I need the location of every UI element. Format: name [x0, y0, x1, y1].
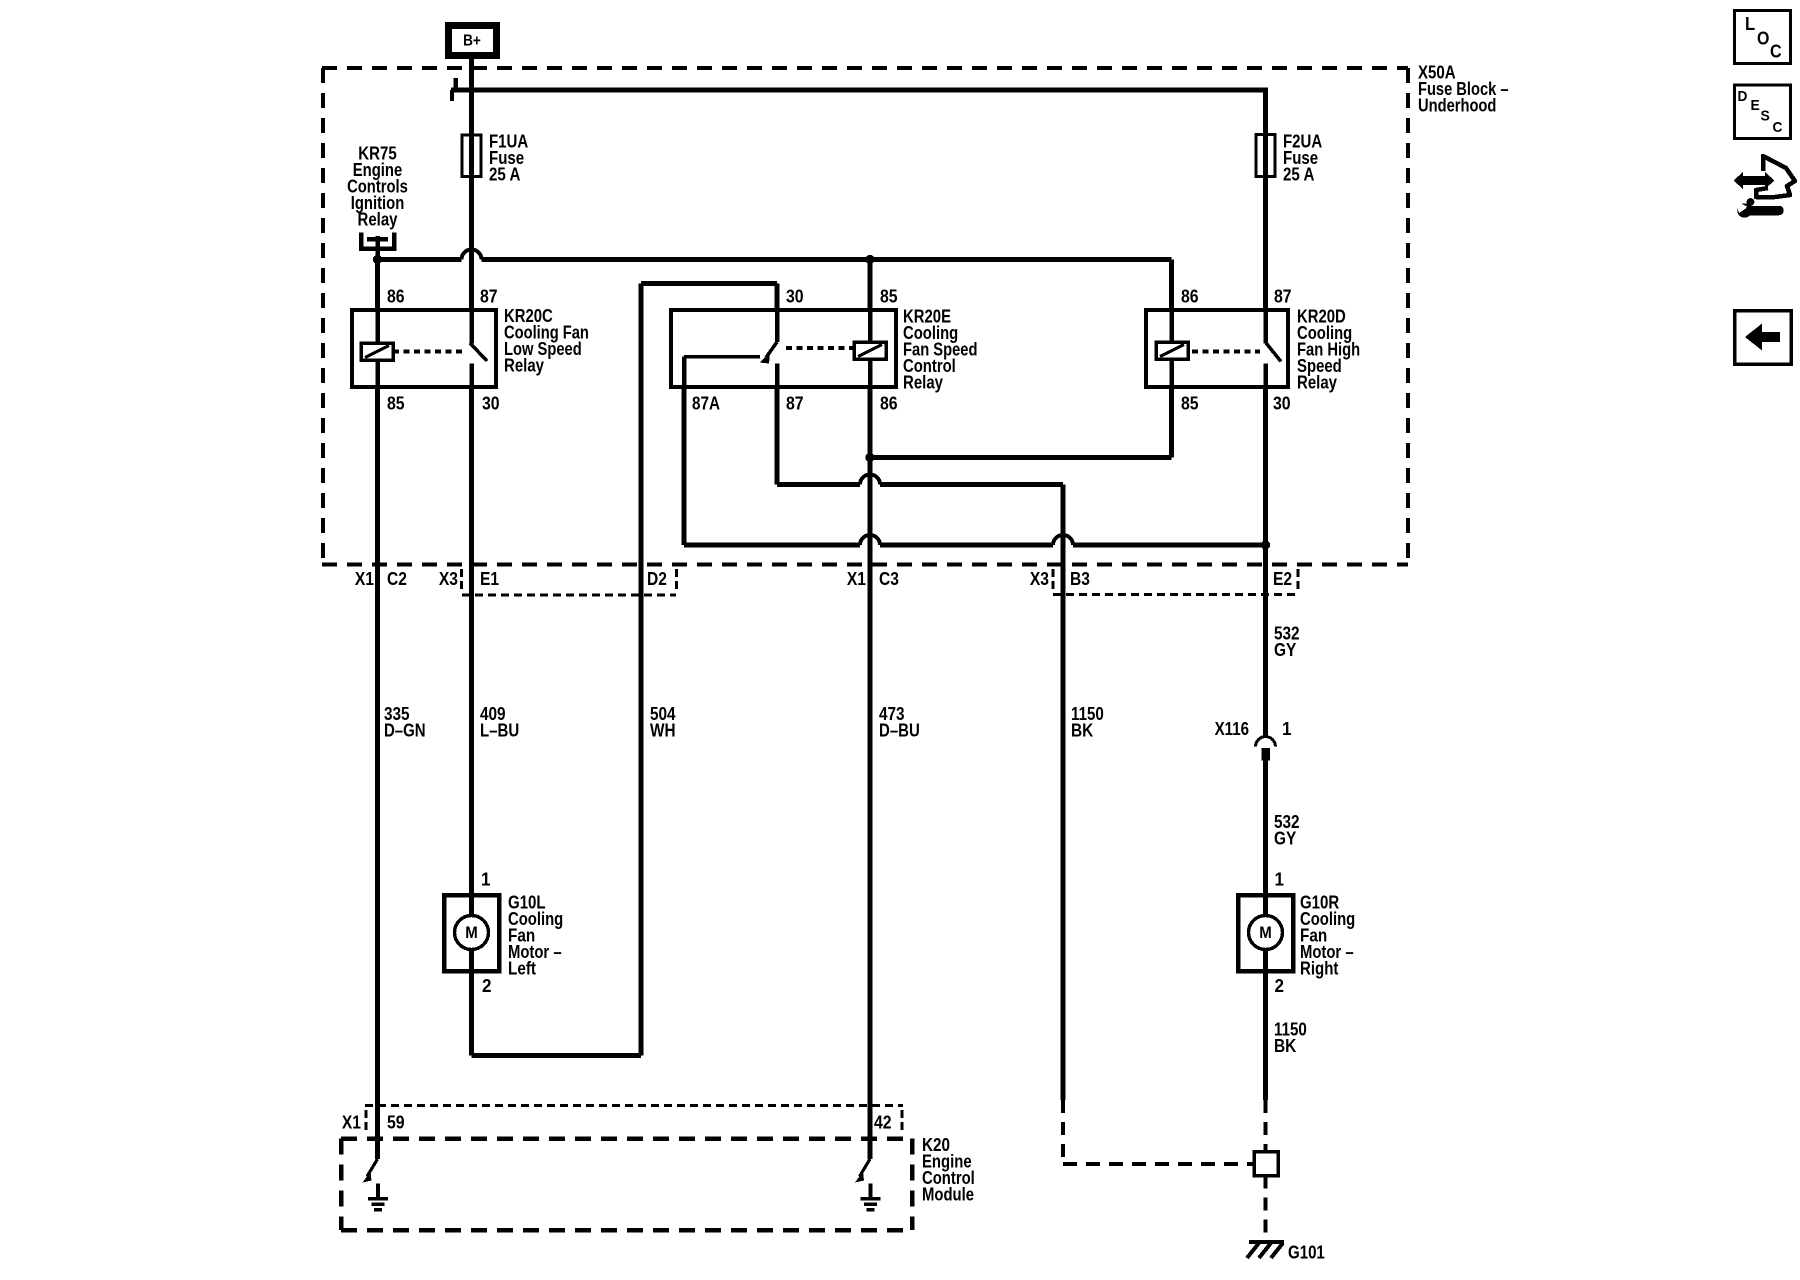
ECM pin 42 switch blade	[860, 1159, 871, 1177]
KR20D pin 87 stub	[1263, 310, 1268, 344]
svg-text:25 A: 25 A	[489, 164, 520, 185]
ECM pin 59 ground	[376, 1184, 380, 1199]
svg-text:C: C	[1770, 42, 1782, 62]
svg-text:D2: D2	[647, 568, 667, 589]
KR20E pin 30 stub	[775, 310, 780, 342]
svg-text:X1: X1	[847, 568, 866, 589]
KR20D pin 86 wire	[1169, 310, 1174, 342]
KR20C coil	[361, 343, 393, 360]
junction dot bus to KR20E pin 85	[865, 255, 874, 264]
G10L pin1 wire	[469, 895, 474, 916]
svg-text:C: C	[1773, 119, 1783, 136]
wire 532 GY X116 to G10R pin 1	[1263, 760, 1268, 916]
wire 409 L-BU KR20C 30 to G10L pin 1	[469, 387, 474, 916]
ECM pin 42 ground	[869, 1184, 873, 1199]
connector D2 tick	[675, 569, 678, 590]
svg-text:Relay: Relay	[358, 209, 399, 230]
KR20C pin 86 wire	[375, 310, 380, 343]
hook symbol at B+ feed junction	[453, 78, 458, 89]
G10L pin2 wire	[469, 949, 474, 971]
svg-text:GY: GY	[1274, 828, 1297, 849]
wire 1150 BK dashed to splice	[1061, 1100, 1065, 1164]
wire dashed splice to G101	[1264, 1176, 1268, 1242]
connector B3 tick	[1052, 569, 1055, 590]
svg-text:X1: X1	[342, 1112, 361, 1133]
motor G10L box	[444, 895, 499, 971]
svg-text:C3: C3	[879, 568, 899, 589]
wire 87A horizontal to E2 column	[684, 543, 860, 548]
KR20E pin 86 wire	[868, 359, 873, 387]
svg-text:30: 30	[1273, 393, 1291, 414]
wire 504 WH bottom run to G10L pin 2	[472, 1053, 642, 1058]
relay KR20E box	[671, 310, 896, 387]
svg-text:30: 30	[786, 286, 804, 307]
wire F2UA drop	[1263, 90, 1268, 310]
motor G10R symbol	[1249, 916, 1283, 950]
connector X116	[1256, 737, 1276, 747]
svg-text:59: 59	[387, 1112, 405, 1133]
svg-text:30: 30	[482, 393, 500, 414]
KR20C pin 30 stub	[469, 364, 474, 388]
DESC icon box	[1735, 85, 1791, 139]
motor G10L symbol	[455, 916, 489, 950]
svg-text:GY: GY	[1274, 639, 1297, 660]
KR20E switch blade	[766, 342, 777, 358]
svg-text:85: 85	[387, 393, 405, 414]
svg-text:86: 86	[1181, 286, 1199, 307]
svg-text:Left: Left	[508, 958, 536, 979]
connector E1 tick	[460, 569, 463, 590]
svg-text:D: D	[1738, 88, 1748, 105]
wire KR20D pin 30 down to X116	[1263, 387, 1268, 737]
svg-text:BK: BK	[1071, 720, 1094, 741]
B+ power terminal	[449, 26, 497, 56]
wire 1150 BK dashed into splice	[1264, 1100, 1268, 1151]
KR20D pin 30 stub	[1263, 364, 1268, 388]
wire KR20E pin 87 down	[775, 387, 780, 485]
relay coil feed bus	[378, 257, 462, 262]
svg-text:S: S	[1761, 108, 1770, 125]
svg-text:Relay: Relay	[504, 355, 545, 376]
KR20E pin 85 wire	[868, 310, 873, 342]
svg-text:2: 2	[1275, 975, 1285, 996]
svg-text:G101: G101	[1288, 1241, 1325, 1262]
ECM pin 59 switch blade	[367, 1159, 378, 1177]
svg-text:L: L	[1745, 14, 1755, 34]
svg-text:E2: E2	[1273, 568, 1292, 589]
connector E2 tick	[1297, 569, 1300, 590]
junction dot 87A to pin30 column	[1261, 540, 1270, 549]
KR20D switch blade	[1266, 343, 1281, 362]
svg-text:B3: B3	[1070, 568, 1090, 589]
connector E1-D2 dotted box bottom	[462, 594, 676, 597]
svg-text:X3: X3	[439, 568, 458, 589]
wire KR75 to KR20C pin 86	[375, 260, 380, 311]
KR20E coil-switch dashed link	[786, 346, 854, 350]
G10R pin2 wire	[1263, 949, 1268, 971]
svg-text:Right: Right	[1300, 958, 1338, 979]
fuse F1UA	[462, 135, 481, 177]
KR20D pin 85 wire	[1169, 359, 1174, 387]
svg-text:87A: 87A	[692, 393, 720, 414]
relay KR20D box	[1146, 310, 1288, 387]
svg-text:42: 42	[874, 1112, 892, 1133]
wire bus down to KR20D pin 86	[1169, 260, 1174, 311]
svg-text:25 A: 25 A	[1283, 164, 1314, 185]
wire B+ down through F1UA to KR20C pin 87	[469, 58, 474, 310]
ECM K20 dashed box	[341, 1136, 912, 1141]
svg-text:1: 1	[1275, 869, 1285, 890]
junction dot KR20E 86 / KR20D 85	[865, 453, 874, 462]
ground G101 symbol	[1249, 1240, 1284, 1244]
junction dot KR75 bus	[373, 255, 382, 264]
wire B3 column down (1150 BK)	[1061, 485, 1066, 1101]
svg-text:O: O	[1757, 29, 1769, 49]
KR20D coil-switch dashed link	[1192, 350, 1260, 354]
svg-text:D–BU: D–BU	[879, 720, 920, 741]
svg-text:M: M	[465, 923, 478, 942]
svg-text:Underhood: Underhood	[1418, 95, 1496, 116]
fuse block X50A dashed outline	[322, 66, 1408, 70]
svg-text:86: 86	[880, 393, 898, 414]
wire bus down to KR20E pin 85	[868, 260, 873, 311]
svg-text:1: 1	[1282, 718, 1292, 739]
back arrow icon box	[1735, 311, 1792, 365]
wire 335 D-GN KR20C 85 to ECM 59	[375, 387, 380, 1159]
wire 1150 BK G10R pin 2 down	[1263, 971, 1268, 1100]
wire KR20E pin 30 loop to D2 (504 WH)	[775, 284, 780, 311]
svg-text:87: 87	[480, 286, 498, 307]
ECM X1 tick	[365, 1110, 368, 1131]
svg-text:Module: Module	[922, 1184, 974, 1205]
KR20C coil-switch dashed link	[393, 350, 466, 354]
KR20E pin 87 stub	[775, 364, 780, 388]
wire pin87 horizontal to B3 column	[777, 482, 860, 487]
svg-text:Relay: Relay	[903, 372, 944, 393]
svg-text:X1: X1	[355, 568, 374, 589]
KR20D coil	[1156, 342, 1188, 359]
svg-text:85: 85	[1181, 393, 1199, 414]
svg-text:E: E	[1751, 97, 1760, 114]
swap-parts icon	[1734, 172, 1775, 189]
ECM right tick	[901, 1110, 904, 1131]
svg-text:L–BU: L–BU	[480, 720, 519, 741]
KR75 relay coil symbol	[361, 233, 394, 249]
wire KR20D pin 85 to junction	[1169, 387, 1174, 458]
connector B3-E2 dotted box bottom	[1053, 593, 1298, 596]
wire B+ feed bus to F2UA	[451, 88, 1268, 93]
splice S-connector box	[1254, 1152, 1278, 1176]
svg-text:85: 85	[880, 286, 898, 307]
LOC icon box	[1735, 11, 1791, 64]
wire 473 D-BU down to ECM	[868, 458, 873, 1160]
KR20E 87A contact line	[684, 355, 760, 359]
svg-text:BK: BK	[1274, 1035, 1297, 1056]
svg-text:1: 1	[481, 869, 491, 890]
KR20C switch blade	[470, 343, 487, 361]
svg-text:M: M	[1259, 923, 1272, 942]
wire KR20E pin 87A down	[682, 387, 687, 545]
svg-text:Relay: Relay	[1297, 372, 1338, 393]
svg-text:E1: E1	[480, 568, 499, 589]
KR20C pin 85 wire	[375, 360, 380, 387]
svg-text:C2: C2	[387, 568, 407, 589]
svg-text:WH: WH	[650, 720, 676, 741]
svg-text:X3: X3	[1030, 568, 1049, 589]
svg-text:87: 87	[786, 393, 804, 414]
fuse F2UA	[1256, 135, 1275, 177]
wire KR20E pin 86 down to junction	[868, 387, 873, 458]
ECM connector dotted line	[365, 1104, 903, 1107]
motor G10R box	[1238, 895, 1293, 971]
relay KR20C box	[352, 310, 496, 387]
svg-text:2: 2	[482, 975, 492, 996]
svg-text:B+: B+	[463, 33, 481, 50]
svg-text:D–GN: D–GN	[384, 720, 426, 741]
KR20C pin 87 stub	[469, 310, 474, 344]
svg-text:86: 86	[387, 286, 405, 307]
KR20E coil	[854, 342, 886, 359]
svg-text:X116: X116	[1215, 718, 1249, 739]
svg-text:87: 87	[1274, 286, 1292, 307]
